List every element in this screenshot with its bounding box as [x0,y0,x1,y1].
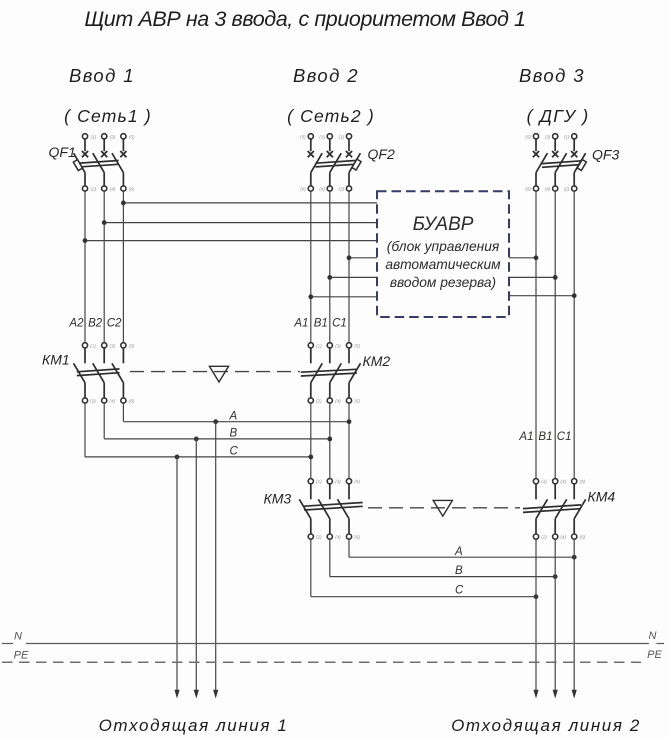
KM1 terminal numbers [90,343,134,403]
svg-text:(5): (5) [525,134,531,139]
junction QF1 pole1 tap [83,238,88,243]
svg-text:(блок управления: (блок управления [387,239,500,254]
svg-text:вводом резерва): вводом резерва) [390,275,496,290]
svg-text:(3): (3) [545,134,551,139]
contactor KM3 [264,479,363,540]
junction QF2 pole1 tap [308,294,313,299]
svg-text:(1): (1) [90,343,96,348]
svg-text:(3): (3) [335,343,341,348]
wire QF3 pole2 to KM4 [554,191,556,479]
wire QF2 pole1 to KM2 [310,191,312,343]
svg-text:C2: C2 [107,317,122,329]
junction line A KM2 [347,419,352,424]
svg-text:(6): (6) [300,187,306,192]
wire QF2 pole2 to KM2 [329,191,331,343]
QF1 pole 1 [74,134,89,191]
QF2 pole 3 [346,134,361,191]
QF2 pole 2 [327,134,342,191]
svg-text:(1): (1) [564,134,570,139]
svg-text:БУАВР: БУАВР [413,214,474,235]
KM1 pole 1 [74,343,88,403]
wire KM3 pole1 down [310,539,312,597]
junction QF1 pole3 tap [121,201,126,206]
QF2 linkage bars [316,160,358,167]
contactor KM1 [42,343,135,404]
KM4 pole 1 [533,479,547,540]
svg-text:(2): (2) [316,535,322,540]
svg-text:A1: A1 [293,318,308,330]
output line 1 phase B wire [195,439,197,691]
svg-text:( ДГУ ): ( ДГУ ) [527,106,590,126]
svg-text:(3): (3) [110,134,116,139]
wire KM3 pole3 down [348,539,350,557]
svg-text:(6): (6) [525,187,531,192]
wire KM1 pole2 down [103,403,105,439]
output line 1 phase C wire [176,457,178,691]
KM1 pole 2 [93,343,107,403]
circuit breaker QF3 [525,134,619,192]
interlock dashed link KM3-KM4 [368,507,520,509]
junction line A output1 [213,419,218,424]
junction QF2 pole3 tap [347,255,352,260]
junction line B KM2 [327,437,332,442]
KM2 pole 3 [346,343,360,403]
svg-text:(1): (1) [316,343,322,348]
arrow output1 A [213,690,218,699]
junction line B output1 [194,437,199,442]
wire QF2 pole3 to BUAVR [349,257,377,259]
KM3 terminal numbers [316,479,360,540]
wire QF1 pole3 to BUAVR [123,202,377,204]
bus line A row1 [123,421,349,423]
KM2 pole 1 [308,343,322,403]
svg-text:(6): (6) [129,187,135,192]
KM4 pole 3 [572,479,586,540]
junction line A KM4 [572,555,577,560]
svg-text:B: B [455,565,463,577]
svg-text:(4): (4) [109,399,115,404]
KM2 linkage bars [301,369,357,376]
wire KM3 pole2 down [329,539,331,576]
junction line C output1 [175,455,180,460]
contactor KM4 [523,479,615,540]
svg-text:автоматическим: автоматическим [385,257,501,272]
arrow output1 C [174,690,179,699]
svg-text:(2): (2) [90,399,96,404]
svg-text:B1: B1 [314,318,328,330]
svg-text:(2): (2) [91,187,97,192]
bus line A row2 [349,556,574,558]
svg-text:A: A [454,546,463,558]
svg-text:Отходящая линия 1: Отходящая линия 1 [99,716,289,735]
circuit breaker QF1 [49,134,135,192]
svg-text:Щит АВР на 3 ввода, с приорите: Щит АВР на 3 ввода, с приоритетом Ввод 1 [84,7,525,31]
bus line B row1 [104,438,330,440]
output line 1 phase A wire [215,422,217,691]
interlock triangle KM3-KM4 [433,500,452,516]
KM4 linkage bars [523,505,581,513]
QF2 actuator [352,159,361,170]
interlock triangle KM1-KM2 [209,366,228,382]
svg-text:N: N [14,631,22,643]
junction QF3 pole1 tap [534,255,539,260]
wire KM2 pole1 to KM3 [310,403,312,479]
svg-text:QF2: QF2 [368,146,395,162]
N bus line [2,643,664,645]
wire QF2 pole1 to BUAVR [311,296,377,298]
svg-text:КМ4: КМ4 [588,489,616,505]
wire QF2 pole2 to BUAVR [330,276,377,278]
QF1 pole 3 [112,134,127,191]
QF3 pole 1 [533,134,548,191]
svg-text:(3): (3) [109,343,115,348]
svg-text:B: B [230,428,238,440]
bus line B row2 [330,576,555,578]
svg-text:(5): (5) [129,134,135,139]
svg-text:(2): (2) [316,399,322,404]
svg-text:(5): (5) [354,343,360,348]
QF1 linkage bars [76,161,119,168]
KM2 pole 2 [327,343,341,403]
junction QF3 pole3 tap [572,293,577,298]
wire KM2 pole2 to KM3 [329,403,331,479]
junction line B KM4 [553,574,558,579]
wire QF3 pole3 to KM4 [573,191,575,479]
arrow output2 A [572,690,577,699]
wire QF1 pole1 to BUAVR [85,240,377,242]
wire QF1 pole1 to KM1 [84,191,86,343]
QF1 actuator [73,160,82,171]
svg-text:(2): (2) [339,187,345,192]
svg-text:(5): (5) [354,479,360,484]
QF2 terminal numbers [300,134,344,191]
wire BUAVR to QF3 pole1 [509,257,536,259]
wire QF1 pole2 to BUAVR [104,222,377,224]
svg-text:(3): (3) [335,479,341,484]
svg-text:(3): (3) [560,479,566,484]
KM4 pole 2 [553,479,567,540]
svg-text:PE: PE [14,650,29,662]
arrow output1 B [194,690,199,699]
junction QF2 pole2 tap [327,275,332,280]
QF3 linkage bars [542,161,583,168]
PE bus line [2,661,641,663]
svg-text:(5): (5) [580,479,586,484]
svg-text:Ввод 3: Ввод 3 [519,65,585,86]
svg-text:C: C [230,445,239,457]
wire QF3 pole1 to KM4 [535,191,537,479]
QF2 pole 1 [308,134,323,191]
svg-text:( Сеть2 ): ( Сеть2 ) [287,106,375,126]
bus line C row1 [85,456,311,458]
svg-text:КМ3: КМ3 [264,491,292,507]
svg-text:(1): (1) [541,479,547,484]
KM3 pole 3 [338,479,352,540]
bus line C row2 [311,596,536,598]
output line 2 phase B wire [554,539,556,690]
svg-text:(6): (6) [354,399,360,404]
svg-text:(6): (6) [354,535,360,540]
svg-text:C: C [455,585,464,597]
wire QF1 pole3 to KM1 [122,191,124,343]
wire KM2 pole3 to KM3 [348,403,350,479]
KM1 pole 3 [112,343,126,403]
svg-text:QF3: QF3 [592,147,619,163]
wire QF1 pole2 to KM1 [103,191,105,343]
wire QF2 pole3 to KM2 [348,191,350,343]
svg-text:(1): (1) [91,134,97,139]
KM3 linkage bars [304,503,363,511]
QF3 pole 3 [571,134,586,191]
QF3 actuator [577,160,586,171]
svg-text:(5): (5) [129,343,135,348]
KM3 pole 1 [299,479,313,540]
wire KM1 pole1 down [84,403,86,457]
svg-text:(4): (4) [335,399,341,404]
KM3 pole 2 [318,479,332,540]
svg-text:(4): (4) [335,535,341,540]
interlock dashed link KM1-KM2 [130,371,300,373]
svg-text:(1): (1) [316,479,322,484]
KM1 linkage bars [77,369,120,376]
svg-text:B1: B1 [538,431,552,443]
arrow output2 B [553,690,558,699]
arrow output2 C [533,690,538,699]
svg-text:(6): (6) [129,399,135,404]
svg-text:A: A [229,410,238,422]
wire BUAVR to QF3 pole2 [509,276,555,278]
svg-text:C1: C1 [332,318,347,330]
svg-text:(4): (4) [545,187,551,192]
wire KM1 pole3 down [122,403,124,422]
KM2 terminal numbers [316,343,360,403]
svg-text:(4): (4) [319,187,325,192]
svg-text:A2: A2 [68,317,84,329]
svg-text:(5): (5) [300,134,306,139]
BUAVR control unit box [377,191,509,317]
svg-text:N: N [649,630,657,642]
junction QF3 pole2 tap [553,275,558,280]
output line 2 phase A wire [573,539,575,690]
KM4 terminal numbers [541,479,585,540]
circuit breaker QF2 [300,134,395,192]
svg-text:Ввод 1: Ввод 1 [69,65,135,86]
QF1 terminal numbers [91,134,135,191]
contactor KM2 [301,343,391,404]
svg-text:КМ2: КМ2 [363,353,391,369]
QF1 pole 2 [93,134,108,191]
svg-text:(6): (6) [580,535,586,540]
junction line C KM2 [308,455,313,460]
svg-text:(2): (2) [541,535,547,540]
QF3 terminal numbers [525,134,569,191]
svg-text:КМ1: КМ1 [42,352,70,368]
svg-text:( Сеть1 ): ( Сеть1 ) [64,106,152,126]
svg-text:C1: C1 [557,431,572,443]
junction line C KM4 [534,594,539,599]
svg-text:Отходящая линия 2: Отходящая линия 2 [451,716,641,735]
output line 2 phase C wire [535,539,537,690]
wire BUAVR to QF3 pole3 [509,295,574,297]
svg-text:Ввод 2: Ввод 2 [293,65,359,86]
svg-text:QF1: QF1 [49,144,76,160]
svg-text:A1: A1 [518,431,533,443]
svg-text:(4): (4) [560,535,566,540]
junction QF1 pole2 tap [102,220,107,225]
svg-text:(4): (4) [110,187,116,192]
svg-text:(3): (3) [319,134,325,139]
QF3 pole 2 [552,134,567,191]
svg-text:(1): (1) [339,134,345,139]
svg-text:(2): (2) [564,187,570,192]
svg-text:B2: B2 [88,317,103,329]
svg-text:PE: PE [647,649,662,661]
